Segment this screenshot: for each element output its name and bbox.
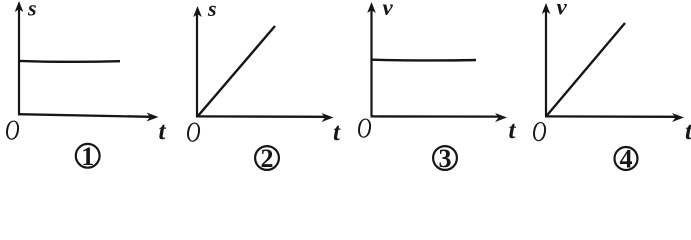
- svg-text:3: 3: [439, 144, 452, 173]
- graph 4 data line (uniform increase): [546, 23, 625, 117]
- svg-text:4: 4: [620, 145, 633, 174]
- graph 3 horizontal axis (t-axis): [371, 113, 508, 122]
- graph 2 circled number 2: [255, 144, 279, 173]
- graph 4 vertical axis (v-axis): [542, 3, 551, 117]
- graph 4 circled number 4: [615, 145, 638, 174]
- svg-text:1: 1: [81, 142, 94, 171]
- svg-text:2: 2: [261, 144, 274, 173]
- svg-text:t: t: [509, 117, 517, 144]
- graph 1 circled number 1: [76, 142, 100, 171]
- graph 1 horizontal axis (t-axis): [18, 113, 159, 122]
- graph 2 vertical axis (s-axis): [193, 6, 202, 117]
- graph 1 data line (constant s): [19, 60, 120, 63]
- graph 3 data line (constant v): [372, 59, 476, 62]
- svg-text:s: s: [27, 0, 37, 21]
- graph 3 circled number 3: [433, 144, 457, 173]
- svg-text:O: O: [186, 117, 201, 148]
- svg-text:O: O: [357, 113, 372, 144]
- graph 2 horizontal axis (t-axis): [196, 113, 334, 122]
- svg-text:v: v: [557, 0, 568, 20]
- svg-text:v: v: [383, 0, 394, 20]
- svg-text:O: O: [5, 115, 20, 146]
- svg-text:O: O: [532, 117, 547, 148]
- graph 2 data line (uniform increase): [198, 26, 276, 117]
- graph 1 vertical axis (s-axis): [15, 1, 24, 116]
- svg-text:s: s: [207, 0, 217, 21]
- svg-text:t: t: [159, 118, 167, 145]
- graph 4 horizontal axis (t-axis): [545, 113, 684, 122]
- graph 3 vertical axis (v-axis): [367, 2, 376, 117]
- svg-text:t: t: [685, 118, 691, 145]
- svg-text:t: t: [333, 119, 341, 146]
